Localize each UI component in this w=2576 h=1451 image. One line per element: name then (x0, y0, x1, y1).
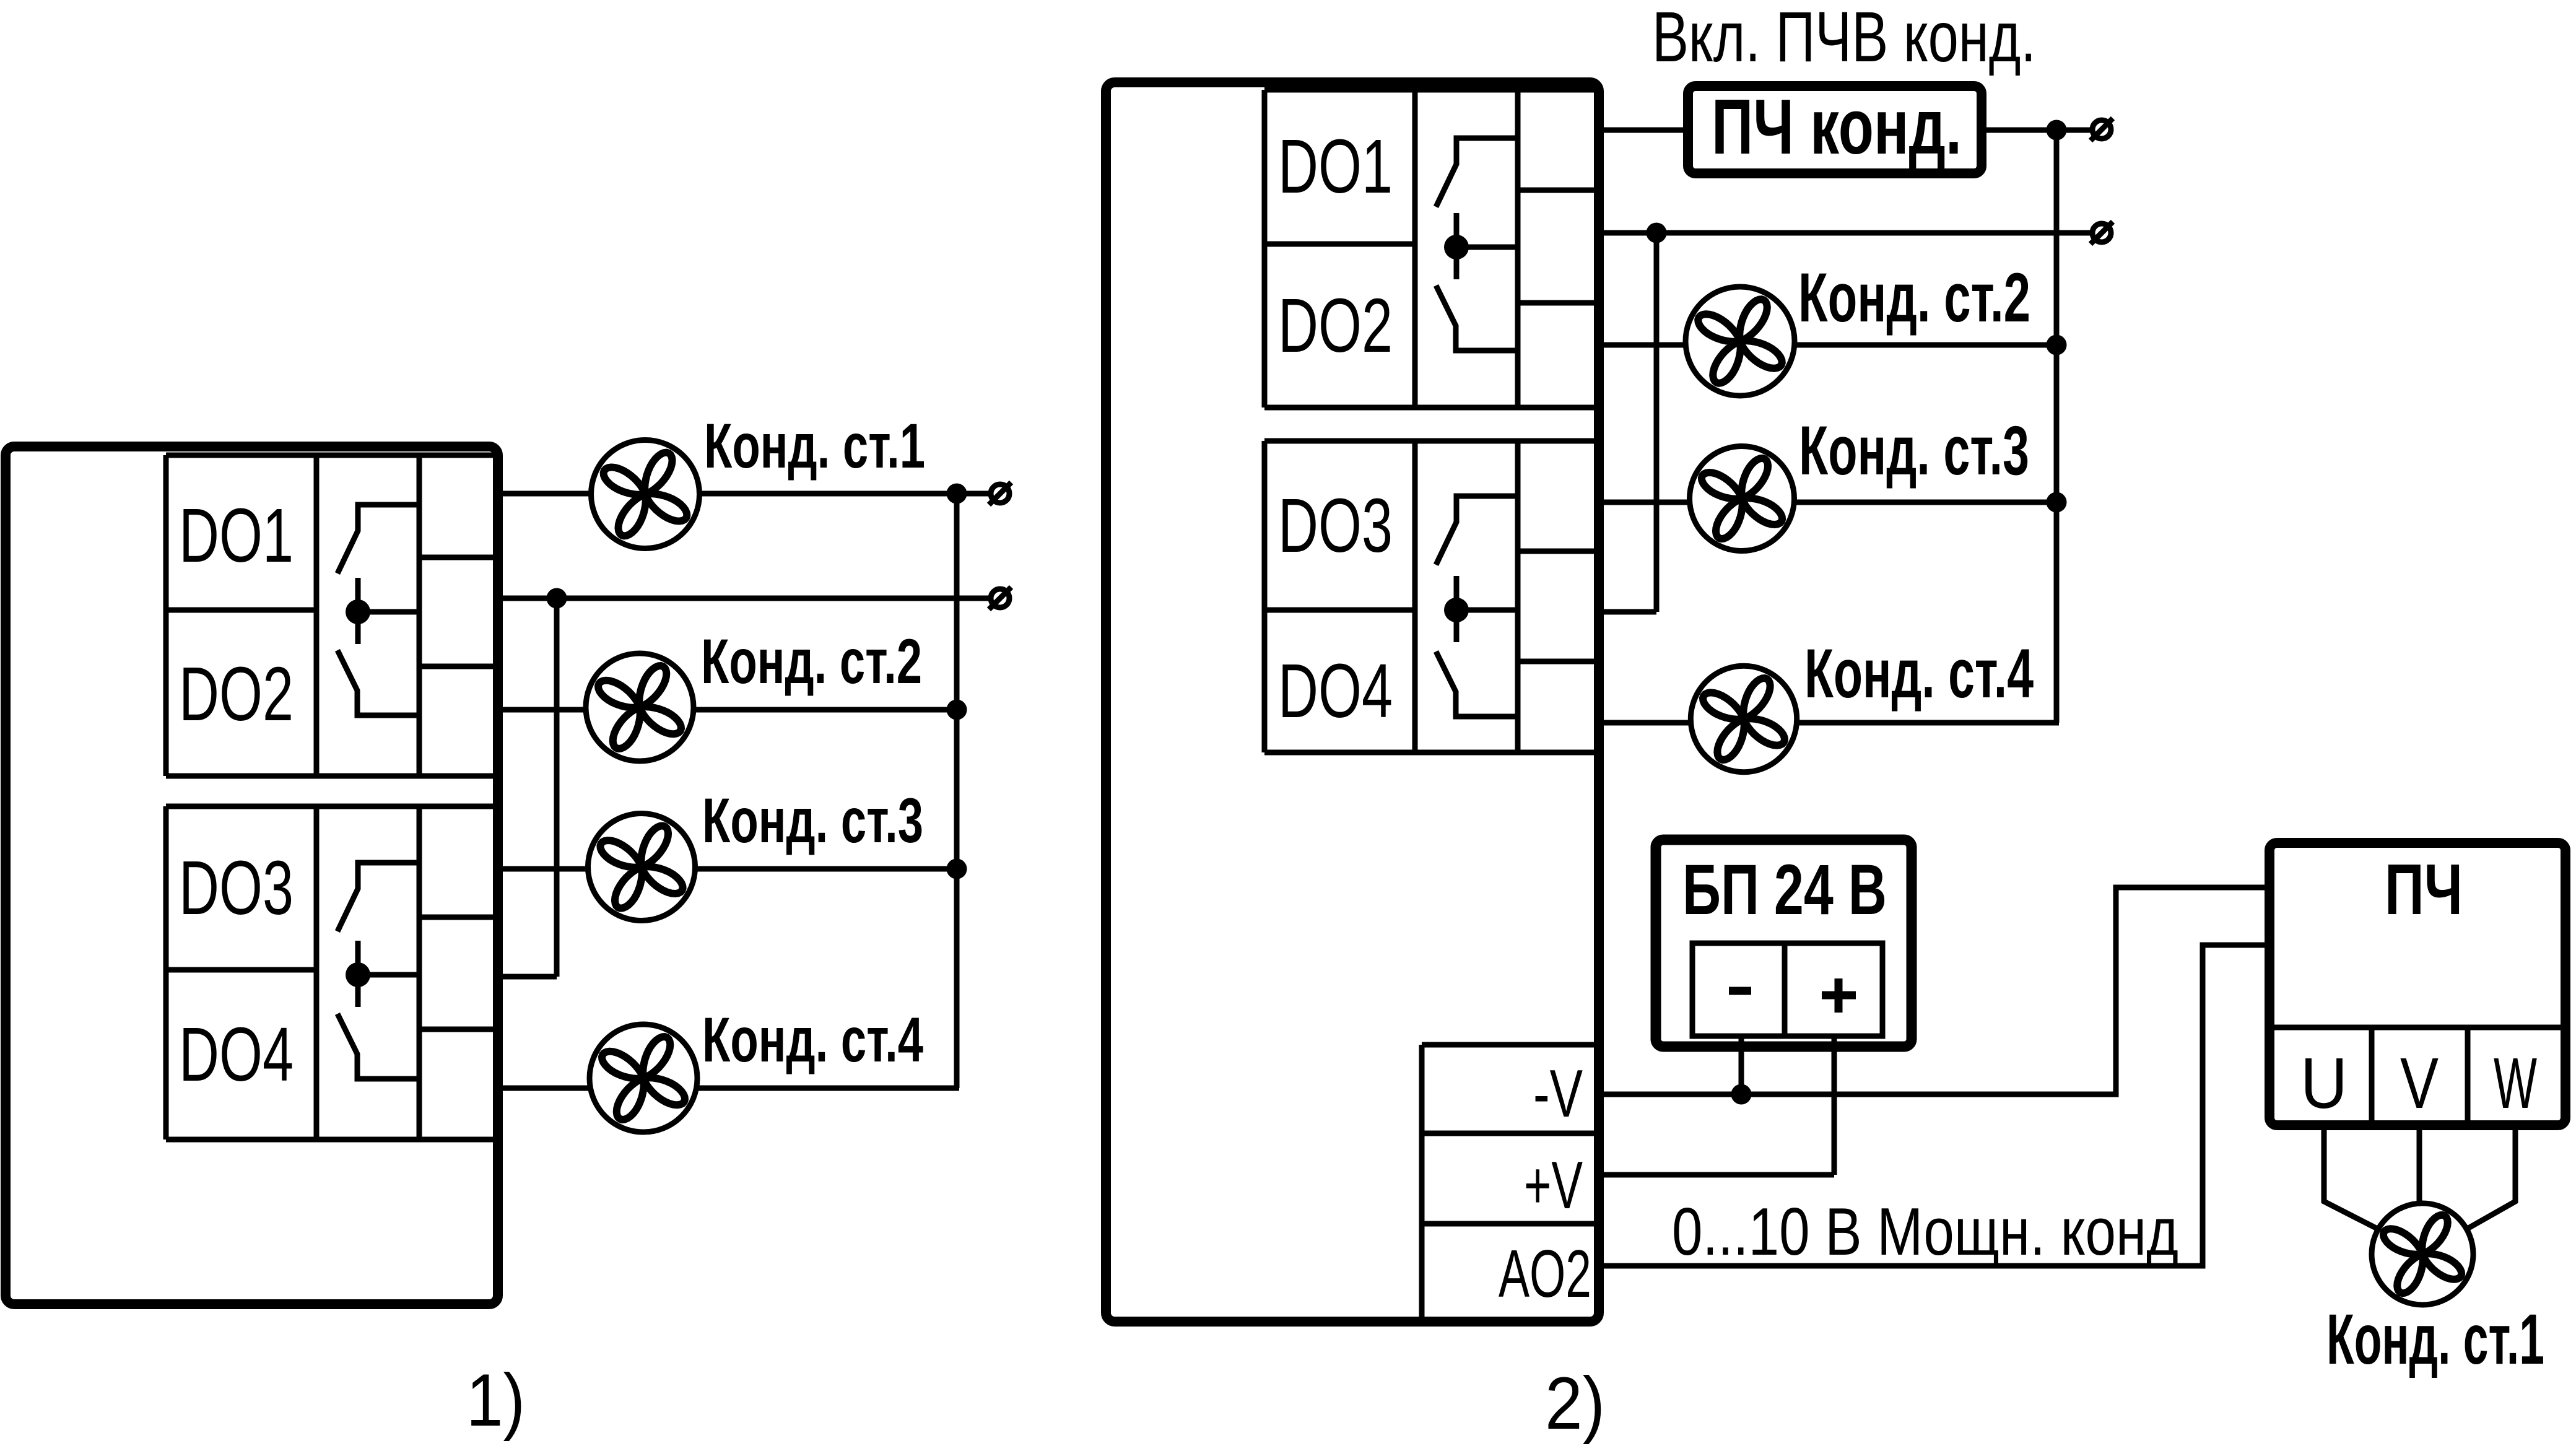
svg-text:DO2: DO2 (1278, 283, 1393, 368)
label DO2 (1278, 283, 1393, 368)
wire -V to ПЧ (L-shape) (1603, 887, 2269, 1094)
wire fan M1 to phase bus (700, 491, 989, 497)
label Конд. ст.2 (2) (1798, 259, 2030, 336)
wire DO2 output to fan M2 (498, 707, 586, 713)
wire fan M7 to bus corner (1797, 720, 2059, 726)
wire DO4 output to fan M4 (498, 1086, 590, 1091)
wire DO2 output to fan M5 (1599, 342, 1686, 348)
caption 2) (1545, 1362, 1605, 1445)
terminal cells dividers DO1/DO2 (2) (1518, 190, 1599, 303)
divider between DO1 and DO2 cells DO1/DO2 (1) (166, 608, 316, 613)
svg-text:ПЧ: ПЧ (2385, 849, 2463, 930)
junction dot M3 row (947, 859, 967, 879)
wire DO1 to ПЧ конд. box (1599, 128, 1684, 133)
label +V (1524, 1148, 1583, 1223)
controller outer box (diagram 2) (1106, 82, 1599, 1322)
frequency drive ПЧ box (2269, 843, 2565, 1125)
relay changeover contact DO1/DO2 (2) (1436, 138, 1518, 351)
svg-text:2): 2) (1545, 1362, 1605, 1445)
svg-text:DO3: DO3 (1278, 483, 1393, 569)
svg-text:Конд. ст.3: Конд. ст.3 (1799, 412, 2029, 489)
wire DO1 output to fan M1 (498, 491, 591, 497)
phase bus vertical (1) (954, 494, 960, 1088)
svg-text:Конд. ст.4: Конд. ст.4 (702, 1004, 923, 1075)
divider between DO3 and DO4 cells DO3/DO4 (2) (1264, 608, 1415, 613)
junction dot COM tie (2) (1647, 223, 1667, 243)
БП minus terminal cell (1692, 943, 1785, 1036)
minus sign (1729, 987, 1751, 995)
COM tie vertical wire (2) (1654, 233, 1660, 612)
wire fan M4 to bus corner (697, 1086, 959, 1091)
svg-text:DO3: DO3 (179, 845, 294, 931)
wire U to fan M8 (2324, 1125, 2380, 1230)
phase bus vertical (2) (2054, 130, 2060, 723)
terminal block DO3/DO4 (1) outline (166, 806, 498, 1139)
junction dot minus/-V (1731, 1084, 1752, 1105)
svg-text:Конд. ст.2: Конд. ст.2 (1798, 259, 2030, 336)
wire COM bus to screw terminal N (1) (498, 596, 989, 601)
svg-text:Вкл. ПЧВ конд.: Вкл. ПЧВ конд. (1652, 0, 2036, 77)
caption 1) (466, 1359, 525, 1442)
divider between DO3 and DO4 cells DO3/DO4 (1) (166, 967, 316, 973)
terminal cells dividers DO3/DO4 (2) (1518, 551, 1599, 661)
junction dot M6 row (2047, 492, 2067, 513)
svg-text:W: W (2494, 1043, 2537, 1123)
svg-text:AO2: AO2 (1499, 1236, 1591, 1312)
svg-text:Конд. ст.1: Конд. ст.1 (704, 411, 925, 481)
relay changeover contact DO1/DO2 (1) (337, 505, 419, 715)
ПЧ конд. device box (1688, 86, 1982, 173)
label DO2 (179, 651, 294, 737)
junction dot top bus (2) (2047, 120, 2067, 141)
contact common dot DO1/DO2 (2) (1444, 235, 1469, 259)
svg-text:DO4: DO4 (179, 1012, 294, 1097)
label DO3 (179, 845, 294, 931)
fan M7 (Конд. ст.4) (1690, 666, 1796, 772)
label Вкл. ПЧВ конд. (1652, 0, 2036, 77)
U/V/W terminal row (2274, 1027, 2561, 1121)
junction dot COM tie (1) (547, 588, 567, 609)
label Конд. ст.4 (1) (702, 1004, 923, 1075)
analog terminal block -V/+V/AO2 (1422, 1045, 1599, 1318)
junction dot M2 row (947, 700, 967, 720)
terminal block DO3/DO4 (2) outline (1264, 441, 1599, 752)
fan M8 (Конд. ст.1) (2372, 1203, 2473, 1305)
fan M5 (Конд. ст.2) (1686, 287, 1795, 396)
svg-text:Конд. ст.2: Конд. ст.2 (701, 626, 922, 697)
svg-text:DO2: DO2 (179, 651, 294, 737)
svg-text:U: U (2300, 1043, 2348, 1123)
COM tie wire to DO3/DO4 block (1) (498, 974, 557, 980)
junction dot M5 row (2047, 335, 2067, 355)
label DO4 (179, 1012, 294, 1097)
wire DO4 output to fan M7 (1599, 720, 1691, 726)
svg-text:DO1: DO1 (1278, 124, 1393, 209)
label AO2 (1499, 1236, 1591, 1312)
wire AO2 to ПЧ (L-shape) (1603, 945, 2269, 1266)
label DO4 (1278, 648, 1393, 734)
plus sign (1822, 978, 1856, 1013)
contact common dot DO1/DO2 (1) (346, 599, 370, 624)
power supply БП 24 В box (1656, 840, 1912, 1047)
label БП 24 В (1682, 850, 1887, 930)
svg-text:1): 1) (466, 1359, 525, 1442)
wire DO3 output to fan M6 (1599, 500, 1689, 505)
wire fan M6 to bus (1794, 500, 2056, 505)
svg-text:DO4: DO4 (1278, 648, 1393, 734)
label Конд. ст.3 (2) (1799, 412, 2029, 489)
svg-text:-V: -V (1533, 1056, 1583, 1131)
label ПЧ (2385, 849, 2463, 930)
wire +V to БП plus (1603, 1172, 1834, 1178)
svg-text:Конд. ст.1: Конд. ст.1 (2326, 1300, 2544, 1379)
terminal cells dividers DO3/DO4 (1) (419, 917, 498, 1029)
terminal block DO1/DO2 (2) outline (1264, 90, 1599, 407)
screw terminal L (2) (2091, 118, 2113, 141)
label U (2300, 1043, 2348, 1123)
wire fan M5 to bus (1795, 342, 2056, 348)
screw terminal N (2) (2091, 222, 2113, 244)
contact common dot DO3/DO4 (1) (346, 962, 370, 987)
fan M1 (Конд. ст.1) (591, 440, 700, 549)
relay changeover contact DO3/DO4 (1) (337, 863, 419, 1079)
svg-text:Конд. ст.4: Конд. ст.4 (1804, 635, 2034, 712)
terminal block DO1/DO2 (1) outline (166, 455, 498, 776)
svg-text:БП 24 В: БП 24 В (1682, 850, 1887, 930)
label -V (1533, 1056, 1583, 1131)
wire COM bus to screw terminal N (2) (1599, 230, 2091, 236)
svg-text:0...10 В Мощн. конд: 0...10 В Мощн. конд (1672, 1194, 2178, 1270)
svg-text:Конд. ст.3: Конд. ст.3 (702, 785, 923, 856)
svg-text:V: V (2400, 1043, 2439, 1123)
fan M3 (Конд. ст.3) (588, 814, 695, 921)
screw terminal N (1) (989, 587, 1011, 609)
svg-text:+V: +V (1524, 1148, 1583, 1223)
label Конд. ст.2 (1) (701, 626, 922, 697)
label ПЧ конд. (1712, 82, 1962, 170)
junction dot bus top (1) (947, 484, 967, 504)
fan M6 (Конд. ст.3) (1690, 447, 1795, 551)
divider between DO1 and DO2 cells DO1/DO2 (2) (1264, 242, 1415, 247)
wire fan M2 to bus (694, 707, 957, 713)
screw terminal L (1) (989, 482, 1011, 505)
wire ПЧ конд. to terminal (1982, 128, 2091, 133)
label DO1 (179, 493, 294, 578)
wire fan M3 to bus (695, 866, 957, 872)
COM tie wire to DO3/DO4 block (2) (1599, 609, 1656, 615)
fan M2 (Конд. ст.2) (586, 653, 694, 761)
controller outer box (diagram 1) (6, 447, 498, 1304)
wire V to fan M8 (2417, 1125, 2422, 1204)
wire БП plus down (1832, 1036, 1837, 1175)
contact common dot DO3/DO4 (2) (1444, 598, 1469, 622)
label Конд. ст.3 (1) (702, 785, 923, 856)
label W (2494, 1043, 2537, 1123)
wire БП minus to -V (1739, 1036, 1744, 1094)
label V (2400, 1043, 2439, 1123)
label DO3 (1278, 483, 1393, 569)
terminal cells dividers DO1/DO2 (1) (419, 557, 498, 666)
label 0...10 В Мощн. конд (1672, 1194, 2178, 1270)
label Конд. ст.4 (2) (1804, 635, 2034, 712)
COM tie vertical wire (1) (554, 598, 560, 977)
fan M4 (Конд. ст.4) (590, 1024, 697, 1132)
wire W to fan M8 (2465, 1125, 2515, 1230)
label DO1 (1278, 124, 1393, 209)
svg-text:ПЧ конд.: ПЧ конд. (1712, 82, 1962, 170)
label Конд. ст.1 (704, 411, 925, 481)
relay changeover contact DO3/DO4 (2) (1436, 496, 1518, 717)
БП plus terminal cell (1785, 943, 1882, 1036)
label Конд. ст.1 (2) (2326, 1300, 2544, 1379)
wire DO3 output to fan M3 (498, 866, 588, 872)
svg-text:DO1: DO1 (179, 493, 294, 578)
